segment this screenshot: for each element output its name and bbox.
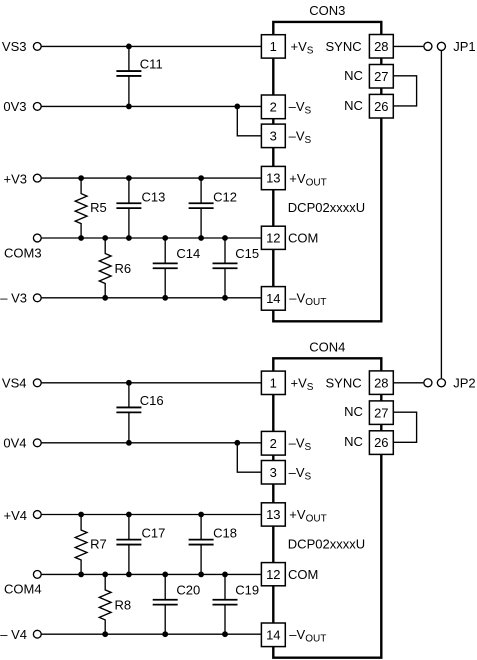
svg-text:COM4: COM4 [4, 582, 42, 597]
svg-text:CON4: CON4 [309, 340, 345, 355]
svg-text:12: 12 [266, 567, 280, 582]
svg-text:SYNC: SYNC [326, 39, 362, 54]
svg-text:COM3: COM3 [4, 245, 42, 260]
svg-text:NC: NC [344, 68, 363, 83]
svg-text:C12: C12 [213, 189, 237, 204]
svg-text:C18: C18 [213, 526, 237, 541]
svg-text:– V4: – V4 [0, 627, 27, 642]
svg-text:27: 27 [374, 69, 388, 84]
svg-text:–VS: –VS [289, 465, 312, 483]
svg-text:26: 26 [374, 435, 388, 450]
svg-text:+V4: +V4 [4, 508, 28, 523]
svg-text:1: 1 [270, 375, 277, 390]
svg-text:28: 28 [374, 39, 388, 54]
svg-text:– V3: – V3 [0, 291, 27, 306]
svg-text:14: 14 [266, 291, 280, 306]
svg-text:13: 13 [266, 507, 280, 522]
svg-text:C11: C11 [140, 57, 163, 72]
svg-text:–VS: –VS [289, 129, 312, 147]
svg-text:C20: C20 [176, 583, 200, 598]
svg-text:+VOUT: +VOUT [289, 507, 326, 525]
svg-text:3: 3 [270, 465, 277, 480]
svg-text:CON3: CON3 [309, 3, 345, 18]
svg-text:C16: C16 [140, 393, 164, 408]
svg-text:–VOUT: –VOUT [289, 291, 326, 309]
svg-text:+VOUT: +VOUT [289, 171, 326, 189]
svg-text:C19: C19 [235, 583, 259, 598]
svg-text:26: 26 [374, 99, 388, 114]
svg-text:R5: R5 [90, 200, 107, 215]
svg-text:C15: C15 [235, 246, 259, 261]
svg-text:+VS: +VS [291, 39, 314, 57]
svg-text:2: 2 [270, 100, 277, 115]
svg-text:14: 14 [266, 627, 280, 642]
svg-text:JP1: JP1 [453, 39, 475, 54]
svg-text:NC: NC [344, 404, 363, 419]
svg-text:DCP02xxxxU: DCP02xxxxU [288, 200, 365, 215]
svg-text:12: 12 [266, 231, 280, 246]
svg-text:VS3: VS3 [2, 39, 27, 54]
svg-text:0V3: 0V3 [3, 99, 26, 114]
svg-text:28: 28 [374, 375, 388, 390]
svg-text:R6: R6 [115, 261, 132, 276]
svg-text:SYNC: SYNC [326, 376, 362, 391]
svg-text:COM: COM [288, 231, 318, 246]
svg-text:–VS: –VS [289, 99, 312, 117]
svg-text:DCP02xxxxU: DCP02xxxxU [288, 537, 365, 552]
svg-text:R7: R7 [90, 537, 107, 552]
svg-text:C13: C13 [142, 189, 166, 204]
svg-text:+VS: +VS [291, 376, 314, 394]
svg-text:1: 1 [270, 39, 277, 54]
svg-text:R8: R8 [115, 597, 132, 612]
svg-text:C14: C14 [176, 246, 200, 261]
svg-text:C17: C17 [142, 526, 166, 541]
svg-text:–VOUT: –VOUT [289, 627, 326, 645]
svg-text:2: 2 [270, 436, 277, 451]
svg-text:–VS: –VS [289, 436, 312, 454]
svg-text:+V3: +V3 [4, 171, 28, 186]
svg-text:VS4: VS4 [2, 376, 27, 391]
svg-text:3: 3 [270, 129, 277, 144]
svg-text:13: 13 [266, 171, 280, 186]
svg-text:27: 27 [374, 405, 388, 420]
svg-text:0V4: 0V4 [3, 436, 26, 451]
svg-text:COM: COM [288, 567, 318, 582]
svg-text:JP2: JP2 [453, 376, 475, 391]
svg-text:NC: NC [344, 434, 363, 449]
svg-text:NC: NC [344, 98, 363, 113]
